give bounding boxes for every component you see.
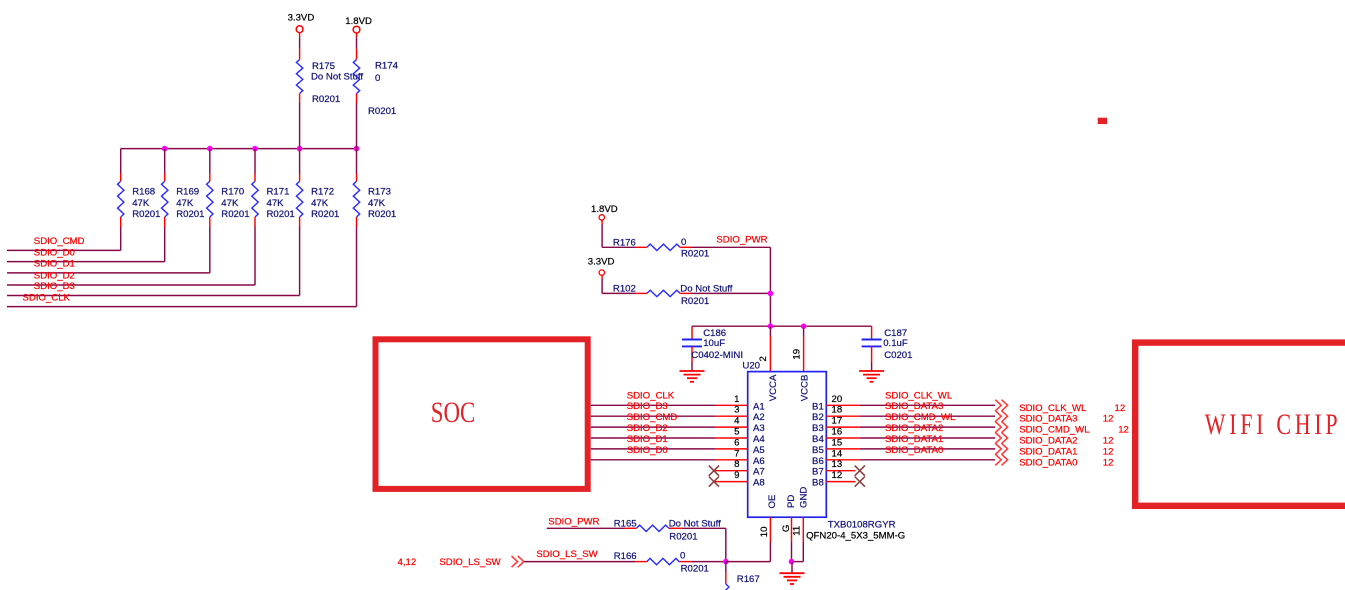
svg-text:R0201: R0201 (311, 209, 339, 220)
svg-text:47K: 47K (221, 198, 239, 209)
svg-text:SDIO_DATA3: SDIO_DATA3 (1019, 414, 1077, 425)
svg-text:SDIO_CMD: SDIO_CMD (34, 236, 85, 247)
svg-text:0.1uF: 0.1uF (883, 338, 908, 349)
svg-text:18: 18 (832, 405, 843, 416)
svg-text:0: 0 (680, 551, 685, 562)
svg-text:B4: B4 (812, 434, 824, 445)
svg-text:R172: R172 (311, 187, 334, 198)
svg-text:SDIO_DATA3: SDIO_DATA3 (885, 401, 943, 412)
svg-text:R175: R175 (312, 61, 335, 72)
svg-text:SDIO_PWR: SDIO_PWR (716, 235, 767, 246)
svg-text:R166: R166 (614, 551, 637, 562)
svg-text:OE: OE (767, 495, 778, 509)
svg-text:SOC: SOC (431, 396, 476, 429)
svg-text:SDIO_D2: SDIO_D2 (627, 423, 668, 434)
svg-text:47K: 47K (368, 198, 386, 209)
svg-text:R0201: R0201 (132, 209, 160, 220)
svg-text:11: 11 (792, 526, 803, 536)
svg-text:B7: B7 (812, 467, 824, 478)
svg-text:12: 12 (1103, 446, 1114, 457)
svg-text:SDIO_DATA1: SDIO_DATA1 (885, 434, 943, 445)
svg-text:SDIO_D1: SDIO_D1 (34, 259, 75, 270)
svg-text:SDIO_DATA1: SDIO_DATA1 (1019, 446, 1077, 457)
svg-text:B1: B1 (812, 401, 824, 412)
svg-text:20: 20 (832, 394, 843, 405)
svg-text:12: 12 (1103, 457, 1114, 468)
svg-text:R169: R169 (176, 187, 199, 198)
svg-text:13: 13 (832, 459, 843, 470)
svg-text:16: 16 (832, 427, 843, 438)
svg-text:R0201: R0201 (681, 296, 709, 307)
svg-text:R173: R173 (368, 187, 391, 198)
svg-text:VCCA: VCCA (768, 374, 779, 401)
svg-text:SDIO_D1: SDIO_D1 (627, 434, 668, 445)
svg-text:A3: A3 (753, 423, 765, 434)
svg-text:12: 12 (1103, 436, 1114, 447)
svg-text:B3: B3 (812, 423, 824, 434)
svg-text:R167: R167 (737, 574, 760, 585)
svg-text:47K: 47K (132, 198, 150, 209)
svg-text:SDIO_PWR: SDIO_PWR (548, 516, 599, 527)
svg-text:47K: 47K (176, 198, 194, 209)
svg-text:15: 15 (832, 437, 843, 448)
svg-text:SDIO_D2: SDIO_D2 (34, 271, 75, 282)
svg-text:B6: B6 (812, 456, 824, 467)
svg-text:Do Not Stuff: Do Not Stuff (669, 518, 721, 529)
svg-text:2: 2 (758, 356, 769, 361)
svg-text:SDIO_LS_SW: SDIO_LS_SW (439, 557, 501, 568)
svg-text:SDIO_CLK: SDIO_CLK (627, 390, 675, 401)
svg-text:SDIO_CMD: SDIO_CMD (627, 412, 678, 423)
svg-text:3.3VD: 3.3VD (288, 12, 315, 23)
svg-text:4,12: 4,12 (398, 557, 417, 568)
svg-text:8: 8 (734, 459, 739, 470)
svg-text:1: 1 (734, 394, 739, 405)
svg-text:G: G (781, 525, 792, 532)
svg-text:B8: B8 (812, 478, 824, 489)
svg-text:R0201: R0201 (681, 249, 709, 260)
svg-text:QFN20-4_5X3_5MM-G: QFN20-4_5X3_5MM-G (806, 531, 905, 542)
svg-text:12: 12 (832, 470, 843, 481)
svg-text:A1: A1 (753, 401, 765, 412)
svg-text:PD: PD (786, 495, 797, 508)
svg-text:14: 14 (832, 448, 843, 459)
svg-text:R0201: R0201 (267, 209, 295, 220)
svg-text:SDIO_DATA0: SDIO_DATA0 (885, 445, 943, 456)
svg-text:GND: GND (798, 487, 809, 508)
svg-text:C0402-MINI: C0402-MINI (691, 350, 743, 361)
svg-text:17: 17 (832, 416, 843, 427)
svg-text:B2: B2 (812, 412, 824, 423)
svg-text:A4: A4 (753, 434, 765, 445)
svg-text:SDIO_D3: SDIO_D3 (34, 281, 75, 292)
svg-text:R0201: R0201 (669, 531, 697, 542)
svg-text:0: 0 (375, 73, 380, 84)
svg-text:6: 6 (734, 437, 739, 448)
svg-text:R168: R168 (132, 187, 155, 198)
svg-text:R171: R171 (267, 187, 290, 198)
svg-text:WIFI CHIP: WIFI CHIP (1205, 409, 1342, 441)
svg-text:R0201: R0201 (312, 94, 340, 105)
svg-text:4: 4 (734, 416, 740, 427)
svg-text:5: 5 (734, 427, 739, 438)
svg-text:TXB0108RGYR: TXB0108RGYR (828, 519, 896, 530)
svg-text:12: 12 (1103, 414, 1114, 425)
svg-text:SDIO_CMD_WL: SDIO_CMD_WL (1019, 425, 1090, 436)
svg-text:7: 7 (734, 448, 739, 459)
svg-text:C0201: C0201 (884, 350, 912, 361)
svg-text:R165: R165 (614, 518, 637, 529)
svg-text:Do Not Stuff: Do Not Stuff (680, 284, 732, 295)
svg-text:3.3VD: 3.3VD (588, 257, 615, 268)
svg-text:1.8VD: 1.8VD (345, 16, 372, 27)
svg-text:10: 10 (759, 527, 770, 538)
svg-text:Do Not Stuff: Do Not Stuff (311, 72, 363, 83)
svg-text:A8: A8 (753, 478, 765, 489)
svg-text:19: 19 (792, 349, 803, 360)
svg-text:R0201: R0201 (221, 209, 249, 220)
svg-text:0: 0 (681, 237, 686, 248)
svg-text:R0201: R0201 (176, 209, 204, 220)
svg-text:9: 9 (734, 470, 739, 481)
svg-text:SDIO_D0: SDIO_D0 (627, 445, 668, 456)
svg-text:A6: A6 (753, 456, 765, 467)
svg-text:SDIO_CLK_WL: SDIO_CLK_WL (885, 390, 953, 401)
svg-text:SDIO_LS_SW: SDIO_LS_SW (536, 549, 598, 560)
svg-text:SDIO_DATA2: SDIO_DATA2 (885, 423, 943, 434)
svg-text:47K: 47K (311, 198, 329, 209)
svg-text:R170: R170 (221, 187, 244, 198)
svg-text:SDIO_CLK_WL: SDIO_CLK_WL (1019, 403, 1087, 414)
svg-text:R0201: R0201 (368, 106, 396, 117)
svg-text:10uF: 10uF (703, 338, 725, 349)
svg-text:SDIO_CMD_WL: SDIO_CMD_WL (885, 412, 956, 423)
svg-text:47K: 47K (267, 198, 285, 209)
svg-text:R102: R102 (613, 284, 636, 295)
svg-text:R0201: R0201 (681, 563, 709, 574)
svg-text:12: 12 (1115, 403, 1126, 414)
svg-text:12: 12 (1118, 425, 1129, 436)
svg-text:SDIO_D3: SDIO_D3 (627, 401, 668, 412)
svg-text:A7: A7 (753, 467, 765, 478)
svg-text:VCCB: VCCB (799, 375, 810, 402)
svg-text:A5: A5 (753, 445, 765, 456)
svg-text:R174: R174 (375, 61, 399, 72)
svg-text:1.8VD: 1.8VD (591, 204, 618, 215)
svg-text:R0201: R0201 (368, 209, 396, 220)
svg-text:B5: B5 (812, 445, 824, 456)
svg-text:SDIO_CLK: SDIO_CLK (23, 292, 71, 303)
svg-text:A2: A2 (753, 412, 765, 423)
svg-text:R176: R176 (613, 238, 636, 249)
svg-text:SDIO_D0: SDIO_D0 (34, 247, 75, 258)
svg-text:SDIO_DATA2: SDIO_DATA2 (1019, 436, 1077, 447)
svg-text:SDIO_DATA0: SDIO_DATA0 (1019, 457, 1077, 468)
svg-text:3: 3 (734, 405, 739, 416)
